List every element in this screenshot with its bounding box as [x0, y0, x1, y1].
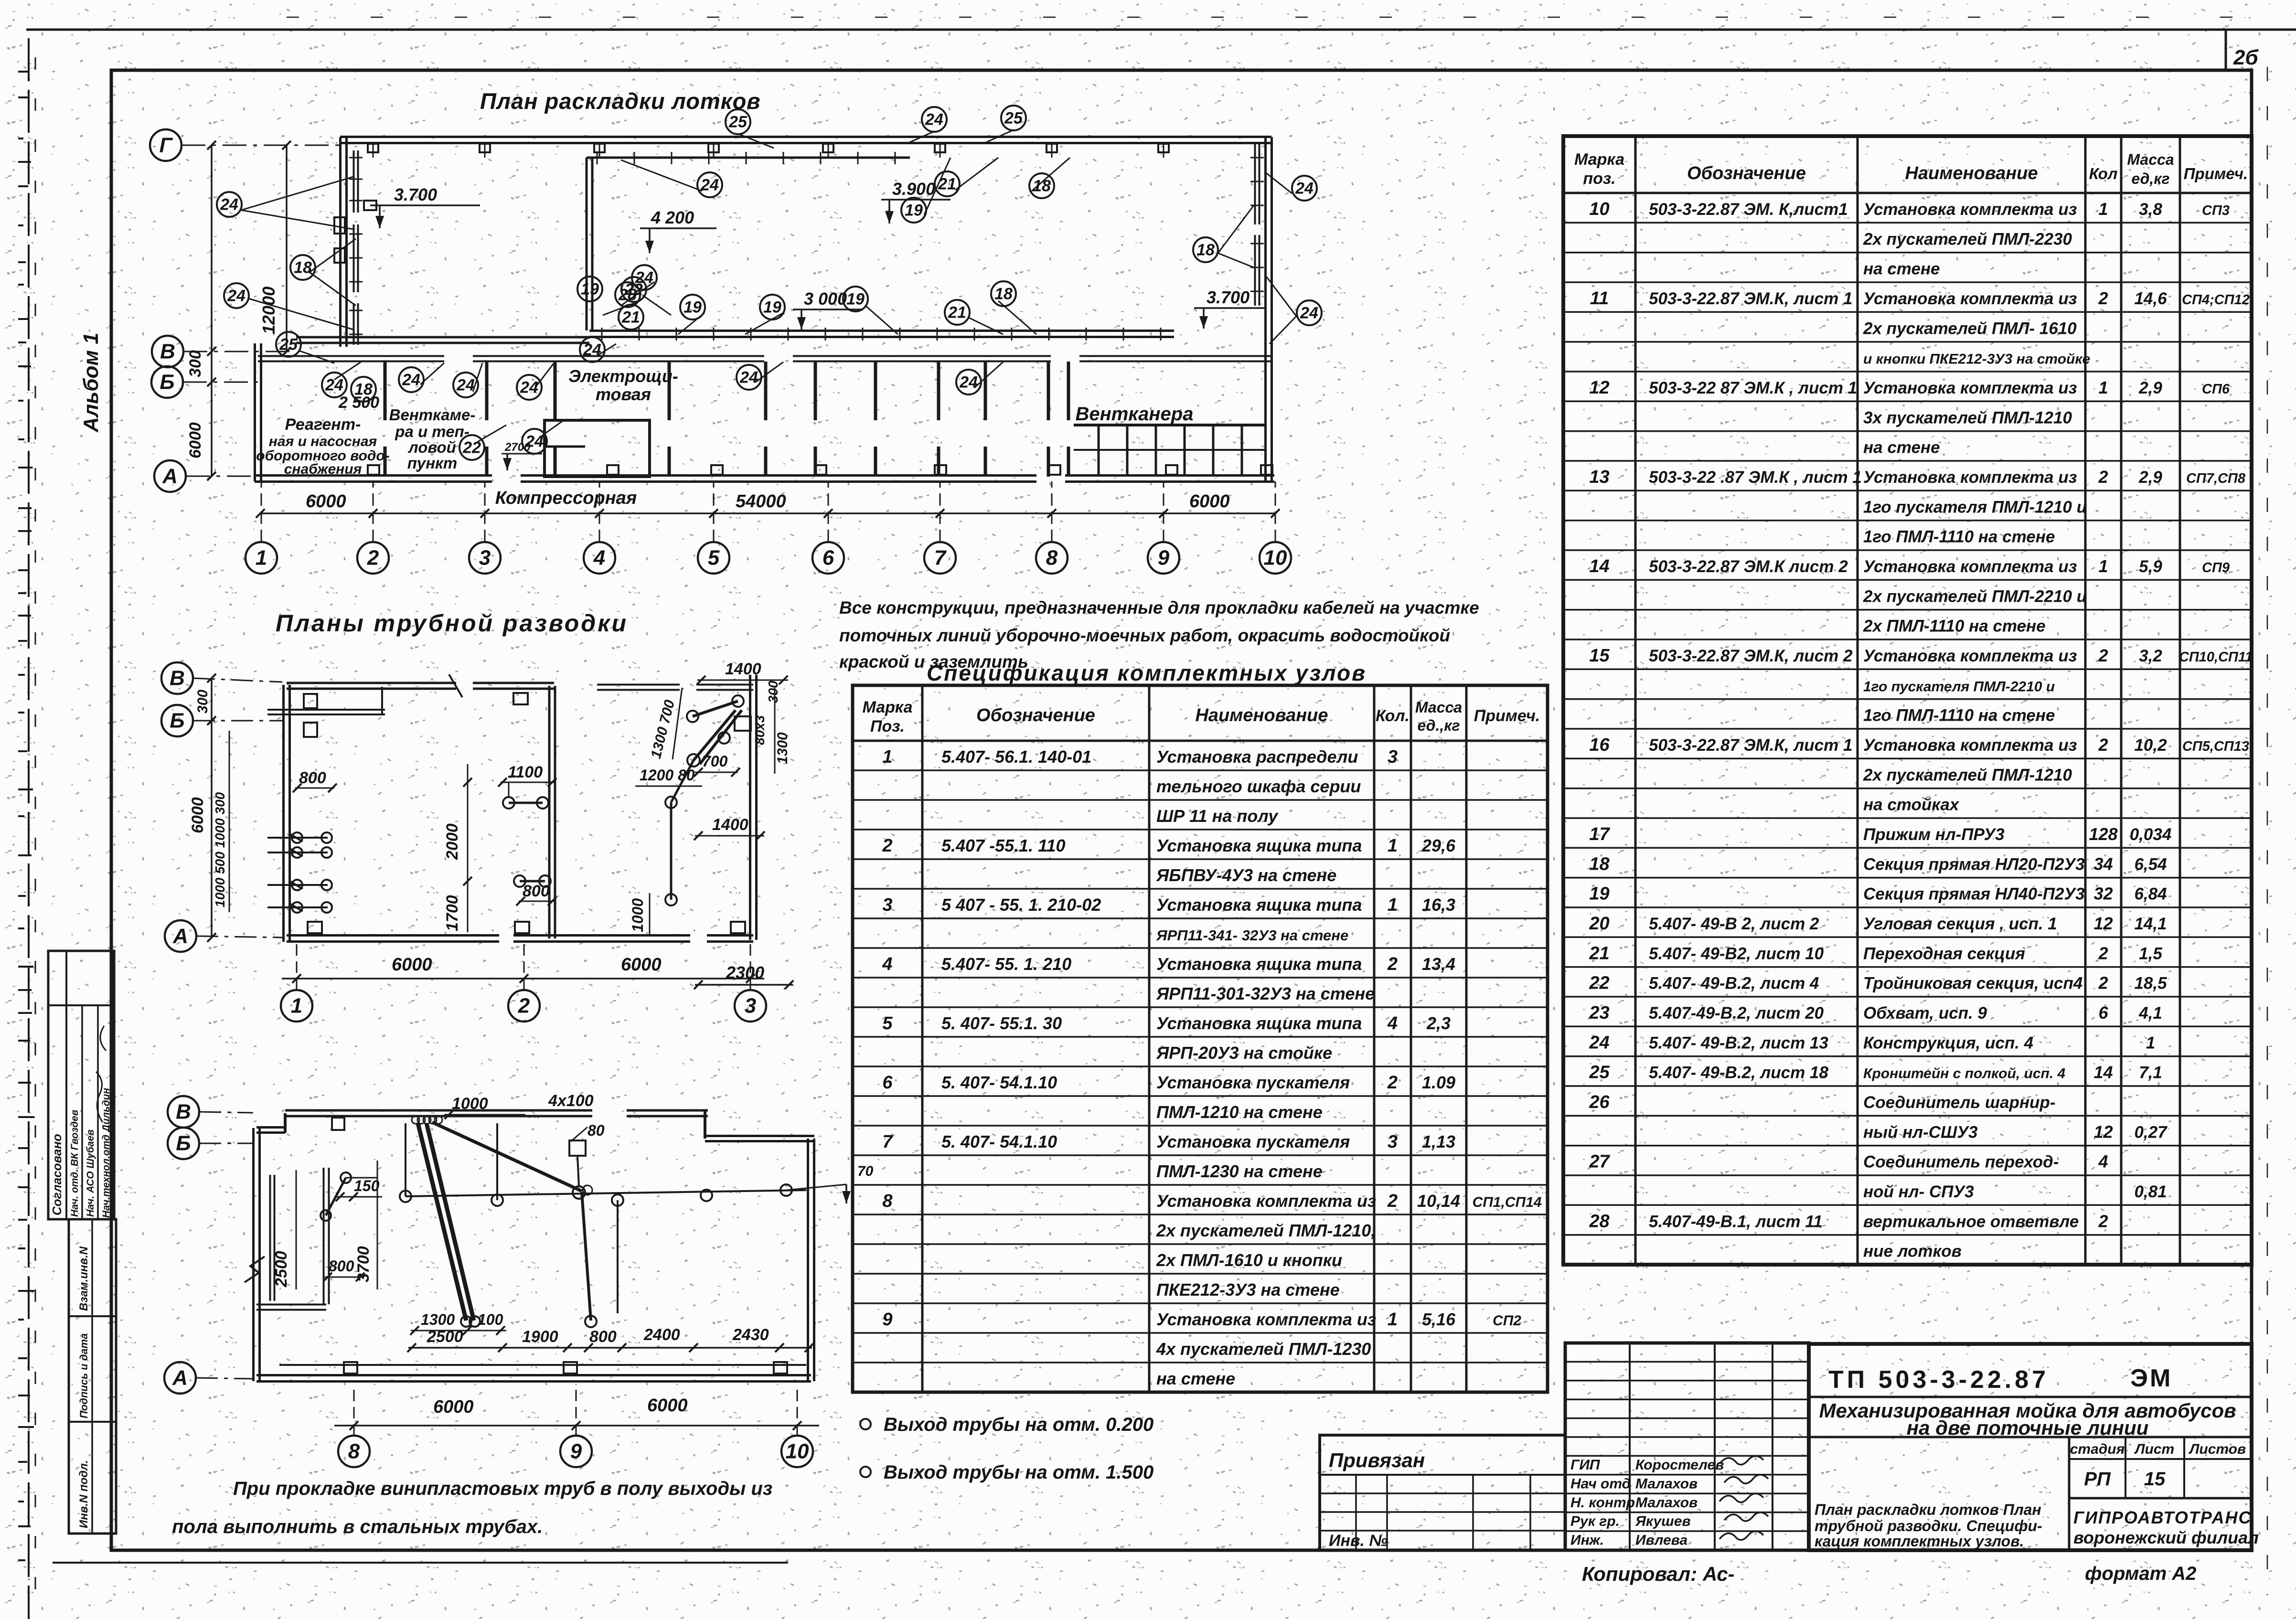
plan3 left pipe: [326, 1178, 346, 1215]
svg-text:25: 25: [728, 113, 748, 131]
svg-text:на стене: на стене: [1863, 438, 1940, 457]
svg-text:товая: товая: [596, 384, 651, 404]
position circle 24: [956, 370, 981, 394]
svg-text:34: 34: [2093, 854, 2113, 873]
svg-text:Соединитель переход-: Соединитель переход-: [1863, 1153, 2059, 1172]
svg-text:2,9: 2,9: [2138, 468, 2162, 487]
svg-text:15: 15: [2144, 1469, 2166, 1490]
svg-text:РП: РП: [2084, 1469, 2111, 1490]
svg-text:2х ПМЛ-1610 и кнопки: 2х ПМЛ-1610 и кнопки: [1156, 1250, 1342, 1270]
svg-text:Примеч.: Примеч.: [2184, 165, 2248, 182]
svg-text:10,2: 10,2: [2134, 736, 2167, 755]
svg-text:поточных линий уборочно-моечны: поточных линий уборочно-моечных работ, о…: [839, 626, 1450, 645]
svg-text:8: 8: [348, 1440, 360, 1463]
svg-text:Обозначение: Обозначение: [976, 705, 1095, 725]
position circle 25: [1001, 106, 1026, 130]
scan bottom-left edge line: [53, 1562, 788, 1564]
svg-text:ед,кг: ед,кг: [2131, 170, 2169, 187]
svg-text:Реагент-: Реагент-: [285, 415, 361, 434]
main plan: electroshchitovaya room: [545, 420, 650, 477]
svg-text:Кол.: Кол.: [1376, 707, 1410, 725]
svg-text:Планы трубной разводки: Планы трубной разводки: [276, 610, 628, 637]
main plan: corridor tray line: [589, 330, 1174, 332]
svg-text:Установка ящика типа: Установка ящика типа: [1156, 954, 1362, 974]
svg-text:21: 21: [938, 175, 956, 193]
svg-text:12: 12: [2093, 1122, 2113, 1141]
svg-text:Установка комплекта из: Установка комплекта из: [1156, 1191, 1376, 1211]
svg-text:ЯБПВУ-4У3 на стене: ЯБПВУ-4У3 на стене: [1156, 865, 1336, 885]
main plan: partitions below corridor: [384, 362, 387, 420]
axis circle V: [152, 336, 183, 367]
svg-text:ние лотков: ние лотков: [1863, 1242, 1962, 1261]
legend: pipe outlet note 2: [860, 1467, 871, 1477]
svg-text:Привязан: Привязан: [1329, 1449, 1425, 1471]
svg-text:10: 10: [1589, 199, 1609, 219]
svg-text:0,81: 0,81: [2134, 1182, 2167, 1201]
svg-text:4: 4: [593, 546, 605, 570]
svg-text:23: 23: [1589, 1003, 1609, 1023]
main plan: tray along right wall inner: [1254, 144, 1256, 224]
svg-text:5.407- 49-В.2, лист 13: 5.407- 49-В.2, лист 13: [1649, 1033, 1828, 1052]
svg-text:Выход трубы на отм. 1.500: Выход трубы на отм. 1.500: [884, 1462, 1153, 1483]
svg-text:ед.,кг: ед.,кг: [1417, 717, 1460, 734]
svg-text:5: 5: [708, 546, 720, 570]
axis circle 2: [357, 542, 389, 574]
svg-text:9: 9: [882, 1310, 892, 1330]
svg-text:ПМЛ-1230 на стене: ПМЛ-1230 на стене: [1156, 1161, 1323, 1181]
svg-text:2: 2: [1387, 1191, 1398, 1211]
svg-text:1: 1: [256, 546, 267, 570]
svg-text:СП7,СП8: СП7,СП8: [2186, 471, 2246, 486]
svg-text:снабжения: снабжения: [284, 461, 362, 477]
svg-text:1400: 1400: [712, 816, 748, 834]
svg-text:СП10,СП11: СП10,СП11: [2179, 650, 2253, 665]
position circle 24: [632, 265, 657, 290]
svg-text:СП9: СП9: [2202, 560, 2230, 575]
plan2 bottom dim line: [282, 978, 764, 980]
svg-text:ГИПРОАВТОТРАНС: ГИПРОАВТОТРАНС: [2073, 1508, 2252, 1527]
svg-text:1: 1: [1388, 895, 1398, 915]
svg-text:4,1: 4,1: [2138, 1004, 2162, 1023]
position circle 24: [399, 367, 424, 392]
svg-text:2: 2: [1387, 954, 1398, 974]
svg-text:5.407- 56.1. 140-01: 5.407- 56.1. 140-01: [941, 747, 1091, 767]
main plan: left outer wall: [339, 137, 342, 347]
svg-text:4: 4: [2098, 1152, 2108, 1172]
svg-text:2: 2: [882, 836, 892, 856]
svg-text:Обозначение: Обозначение: [1687, 163, 1806, 183]
svg-text:12: 12: [1589, 378, 1609, 398]
svg-text:21: 21: [621, 309, 640, 327]
svg-text:1го ПМЛ-1110 на стене: 1го ПМЛ-1110 на стене: [1863, 706, 2055, 725]
svg-text:ЯРП11-341- 32У3 на стене: ЯРП11-341- 32У3 на стене: [1156, 927, 1348, 944]
svg-text:1го пускателя ПМЛ-2210 и: 1го пускателя ПМЛ-2210 и: [1863, 679, 2055, 694]
position circle 18: [1029, 173, 1054, 198]
svg-text:3: 3: [1388, 747, 1398, 767]
svg-text:5,16: 5,16: [1422, 1310, 1456, 1329]
svg-text:8: 8: [882, 1191, 893, 1211]
svg-text:Малахов: Малахов: [1635, 1495, 1698, 1511]
svg-text:25: 25: [1004, 109, 1023, 128]
svg-text:24: 24: [456, 376, 475, 394]
svg-text:24: 24: [325, 376, 343, 394]
svg-text:6000: 6000: [433, 1397, 474, 1417]
plan2 axis circles: [161, 662, 193, 694]
axis circle B: [151, 366, 183, 398]
svg-text:0,27: 0,27: [2134, 1123, 2168, 1141]
svg-text:18: 18: [1033, 177, 1051, 195]
svg-text:19: 19: [1589, 884, 1609, 904]
svg-text:Установка пускателя: Установка пускателя: [1156, 1132, 1350, 1151]
svg-text:Кронштейн с полкой, исп. 4: Кронштейн с полкой, исп. 4: [1863, 1066, 2065, 1082]
svg-text:Нач.технол.отд Дильдин: Нач.технол.отд Дильдин: [101, 1088, 112, 1218]
svg-text:9: 9: [1158, 546, 1170, 570]
svg-text:ловой: ловой: [407, 438, 456, 456]
svg-text:5.407- 49-В.2, лист 18: 5.407- 49-В.2, лист 18: [1649, 1064, 1828, 1082]
svg-text:Переходная секция: Переходная секция: [1863, 944, 2025, 963]
svg-text:ПКЕ212-3У3 на стене: ПКЕ212-3У3 на стене: [1156, 1280, 1340, 1299]
svg-text:12: 12: [2093, 914, 2113, 933]
svg-text:19: 19: [683, 298, 702, 317]
position circle 18: [290, 255, 315, 280]
svg-text:18: 18: [1196, 241, 1215, 259]
svg-text:24: 24: [1295, 180, 1314, 198]
svg-text:2000: 2000: [443, 823, 461, 860]
svg-text:Компрессорная: Компрессорная: [495, 488, 637, 508]
svg-text:Инж.: Инж.: [1570, 1533, 1604, 1548]
svg-text:Подпись и дата: Подпись и дата: [78, 1333, 90, 1418]
svg-text:24: 24: [583, 341, 601, 359]
svg-text:3,2: 3,2: [2139, 647, 2162, 665]
svg-text:1000 500 1000 300: 1000 500 1000 300: [213, 792, 227, 907]
svg-text:2х пускателей ПМЛ-2230: 2х пускателей ПМЛ-2230: [1863, 230, 2072, 248]
svg-text:6: 6: [2098, 1003, 2108, 1023]
svg-text:Марка: Марка: [1574, 150, 1624, 169]
svg-text:пункт: пункт: [407, 454, 458, 472]
svg-text:1: 1: [1388, 836, 1398, 856]
svg-text:503-3-22.87 ЭМ.К, лист 1: 503-3-22.87 ЭМ.К, лист 1: [1649, 289, 1852, 308]
svg-text:5. 407- 55.1. 30: 5. 407- 55.1. 30: [941, 1013, 1062, 1033]
svg-text:18,5: 18,5: [2134, 974, 2167, 993]
svg-text:Установка пускателя: Установка пускателя: [1156, 1073, 1350, 1092]
svg-text:8: 8: [1046, 546, 1058, 570]
privyazan block: [1320, 1435, 1565, 1550]
svg-text:22: 22: [1589, 973, 1609, 993]
svg-text:План раскладки лотков: План раскладки лотков: [480, 88, 761, 114]
svg-text:2: 2: [2098, 288, 2108, 308]
svg-text:2х пускателей ПМЛ-2210 и: 2х пускателей ПМЛ-2210 и: [1863, 587, 2087, 606]
svg-text:ШР 11 на полу: ШР 11 на полу: [1156, 806, 1279, 826]
svg-text:Якушев: Якушев: [1635, 1513, 1691, 1529]
main plan: top wall inner tray line with ticks: [587, 157, 910, 159]
svg-text:7,1: 7,1: [2139, 1064, 2162, 1082]
svg-text:10: 10: [786, 1440, 809, 1463]
position circle 24: [322, 373, 347, 397]
svg-text:2х пускателей ПМЛ-1210: 2х пускателей ПМЛ-1210: [1863, 766, 2072, 784]
right specification table frame: [1563, 136, 2252, 1265]
svg-text:2х ПМЛ-1110 на стене: 2х ПМЛ-1110 на стене: [1863, 617, 2046, 636]
main plan: small tray boxes on left wall: [364, 201, 376, 210]
svg-text:Г: Г: [159, 134, 173, 157]
title block outer: [1809, 1344, 2252, 1550]
svg-text:300: 300: [186, 350, 204, 377]
svg-text:15: 15: [1589, 646, 1610, 666]
plan2 axis circles bottom: [281, 990, 312, 1022]
svg-text:ЯРП11-301-32У3 на стене: ЯРП11-301-32У3 на стене: [1156, 984, 1375, 1003]
svg-text:стадия: стадия: [2070, 1441, 2125, 1457]
svg-text:Спецификация комплектных у: Спецификация комплектных узлов: [927, 660, 1367, 685]
svg-text:Примеч.: Примеч.: [1474, 707, 1540, 725]
position circle 24: [217, 192, 242, 217]
svg-text:СП6: СП6: [2202, 382, 2230, 397]
svg-text:ЭМ: ЭМ: [2130, 1364, 2172, 1392]
svg-text:10: 10: [1264, 546, 1287, 570]
svg-text:2,9: 2,9: [2138, 379, 2162, 397]
position circle 24: [737, 365, 761, 390]
scan sheet left edge: [28, 38, 30, 1619]
svg-text:1100: 1100: [508, 763, 543, 781]
plan2 rotated dims 2000/1700: [467, 764, 469, 932]
svg-text:3: 3: [745, 994, 756, 1018]
svg-text:24: 24: [227, 287, 246, 305]
plan3 vertical pipes: [405, 1123, 406, 1196]
position circle 24: [453, 373, 478, 397]
scan sheet top edge: [26, 29, 2296, 31]
bottom dimension line of main plan: [260, 512, 1275, 514]
svg-text:800: 800: [329, 1257, 354, 1275]
main plan: ventkamera inner walls: [1074, 424, 1266, 426]
svg-text:поз.: поз.: [1583, 170, 1615, 188]
svg-text:2430: 2430: [732, 1326, 769, 1344]
title block: stage/sheet grid: [2068, 1437, 2071, 1550]
svg-text:Малахов: Малахов: [1635, 1476, 1698, 1491]
svg-text:Взам.инв.N: Взам.инв.N: [77, 1246, 90, 1311]
svg-text:3: 3: [479, 546, 491, 570]
position circle 19: [760, 295, 785, 320]
svg-text:22: 22: [462, 439, 481, 457]
svg-text:2: 2: [2098, 943, 2108, 963]
svg-text:Нач. отд. ВК Гвоздев: Нач. отд. ВК Гвоздев: [69, 1109, 80, 1217]
svg-text:16,3: 16,3: [1422, 895, 1455, 915]
signature table: [1565, 1343, 1809, 1550]
svg-text:А: А: [172, 1366, 188, 1390]
svg-text:А: А: [162, 465, 178, 488]
svg-text:Масса: Масса: [2127, 151, 2174, 168]
position circle 19: [901, 198, 926, 223]
svg-text:2500: 2500: [427, 1328, 463, 1346]
svg-text:Поз.: Поз.: [870, 717, 905, 735]
position circle 21: [619, 305, 643, 330]
svg-text:пола выполнить в стальных: пола выполнить в стальных трубах.: [172, 1516, 543, 1537]
plan2 left pipe group: [267, 837, 328, 839]
svg-text:1000: 1000: [452, 1095, 488, 1113]
svg-text:18: 18: [294, 259, 312, 277]
svg-text:Соединитель шарнир-: Соединитель шарнир-: [1863, 1093, 2055, 1112]
main plan: west extension tray: [296, 336, 589, 339]
plan3 box on pipe: [569, 1140, 586, 1156]
main plan: column ticks along top wall: [368, 144, 378, 152]
svg-text:Нач отд: Нач отд: [1570, 1476, 1631, 1491]
svg-text:Секция прямая НЛ20-П2У3: Секция прямая НЛ20-П2У3: [1863, 855, 2085, 873]
svg-text:6000: 6000: [189, 797, 207, 833]
main plan: bottom outer wall: [255, 474, 492, 477]
svg-text:24: 24: [959, 373, 978, 392]
svg-text:Б: Б: [170, 709, 184, 733]
svg-text:1: 1: [2098, 199, 2108, 219]
svg-text:14: 14: [2093, 1063, 2113, 1082]
position circle 24: [1297, 300, 1322, 325]
position circle 19: [577, 277, 602, 301]
main plan: inner hall west wall: [586, 158, 588, 330]
svg-text:на стене: на стене: [1863, 260, 1940, 278]
svg-text:Установка комплекта из: Установка комплекта из: [1863, 379, 2077, 397]
svg-text:Инв. №: Инв. №: [1329, 1532, 1388, 1550]
axis circle 9: [1148, 542, 1179, 574]
svg-text:СП2: СП2: [1493, 1313, 1521, 1329]
axis circle G: [150, 129, 182, 161]
svg-text:Н. контр: Н. контр: [1570, 1495, 1635, 1511]
position circle 28: [615, 282, 640, 307]
svg-text:Установка ящика типа: Установка ящика типа: [1156, 895, 1362, 915]
svg-text:2400: 2400: [643, 1326, 680, 1344]
plan2 wall squares: [304, 694, 317, 708]
svg-text:5.407- 49-В.2, лист 4: 5.407- 49-В.2, лист 4: [1649, 974, 1819, 993]
svg-text:3 000: 3 000: [804, 289, 847, 309]
main plan: room top wall: [258, 355, 444, 357]
svg-text:Копировал: Ас-: Копировал: Ас-: [1582, 1563, 1735, 1585]
svg-text:2х пускателей ПМЛ- 1610: 2х пускателей ПМЛ- 1610: [1863, 319, 2077, 338]
svg-text:503-3-22 87 ЭМ.К , лист 1: 503-3-22 87 ЭМ.К , лист 1: [1649, 379, 1857, 397]
svg-text:9: 9: [570, 1440, 582, 1463]
svg-text:1400: 1400: [725, 660, 761, 678]
svg-text:19: 19: [905, 202, 923, 220]
svg-text:Б: Б: [160, 371, 174, 394]
svg-text:Установка ящика типа: Установка ящика типа: [1156, 1013, 1362, 1033]
plan3 knot mid: [573, 1186, 585, 1199]
position circle 25: [276, 332, 301, 357]
svg-text:150: 150: [354, 1177, 380, 1194]
main plan: right outer wall: [1264, 137, 1267, 481]
svg-text:Угловая секция , исп. 1: Угловая секция , исп. 1: [1863, 915, 2057, 933]
svg-text:54000: 54000: [736, 491, 786, 511]
svg-text:Б: Б: [176, 1132, 191, 1155]
svg-text:Установка комплекта из: Установка комплекта из: [1863, 200, 2077, 219]
svg-text:24: 24: [220, 196, 238, 214]
svg-text:Инв.N подл.: Инв.N подл.: [77, 1460, 90, 1528]
position circle 19: [680, 295, 705, 320]
position circle 19: [843, 287, 868, 311]
svg-text:3: 3: [1388, 1132, 1398, 1152]
svg-text:1го пускателя ПМЛ-1210 и: 1го пускателя ПМЛ-1210 и: [1863, 498, 2087, 516]
svg-text:6: 6: [882, 1073, 893, 1093]
margin approval block: [48, 951, 114, 1219]
svg-text:1: 1: [2146, 1033, 2155, 1052]
svg-text:1300: 1300: [421, 1311, 455, 1328]
svg-text:воронежский филиал: воронежский филиал: [2073, 1528, 2259, 1547]
axis circle 8: [1036, 542, 1068, 574]
position circle 24: [697, 172, 722, 197]
svg-text:СП1,СП14: СП1,СП14: [1473, 1194, 1542, 1210]
svg-text:ной нл- СПУ3: ной нл- СПУ3: [1863, 1182, 1974, 1201]
svg-text:14,6: 14,6: [2134, 289, 2167, 308]
svg-text:5. 407- 54.1.10: 5. 407- 54.1.10: [941, 1073, 1057, 1092]
svg-text:300: 300: [195, 690, 211, 714]
svg-text:на стойках: на стойках: [1863, 796, 1960, 814]
position circle 21: [945, 300, 970, 325]
svg-text:ный нл-СШУ3: ный нл-СШУ3: [1863, 1123, 1978, 1141]
svg-text:Установка комплекта из: Установка комплекта из: [1863, 647, 2077, 665]
main plan: lower-left block west wall: [254, 343, 256, 481]
main plan: bottom wall column marks: [368, 465, 379, 475]
svg-text:на две поточные линии: на две поточные линии: [1907, 1417, 2149, 1439]
svg-text:3: 3: [882, 895, 892, 915]
svg-text:22: 22: [624, 281, 643, 299]
position circle 24: [522, 429, 547, 454]
svg-text:СП5,СП13: СП5,СП13: [2182, 739, 2249, 754]
svg-text:ГИП: ГИП: [1570, 1457, 1601, 1473]
plan2 walls: [282, 685, 285, 942]
svg-text:трубной разводки. Специфи-: трубной разводки. Специфи-: [1815, 1517, 2042, 1534]
plan3 rotated dims 2500/3700: [296, 1170, 297, 1289]
svg-text:503-3-22.87 ЭМ.К лист 2: 503-3-22.87 ЭМ.К лист 2: [1649, 557, 1848, 576]
svg-text:2500: 2500: [272, 1251, 290, 1288]
svg-text:1000: 1000: [629, 898, 646, 932]
plan3 axis circles bottom: [338, 1436, 370, 1467]
svg-text:и кнопки ПКЕ212-3У3 на стойке: и кнопки ПКЕ212-3У3 на стойке: [1863, 351, 2090, 367]
svg-text:12000: 12000: [259, 287, 278, 334]
axis dash lines horizontal: [182, 145, 340, 146]
svg-text:1,13: 1,13: [1422, 1132, 1455, 1151]
svg-text:Обхват, исп. 9: Обхват, исп. 9: [1863, 1004, 1987, 1023]
svg-text:ЯРП-20У3 на стойке: ЯРП-20У3 на стойке: [1156, 1043, 1332, 1063]
svg-text:СП3: СП3: [2202, 203, 2230, 218]
svg-text:Согласовано: Согласовано: [50, 1134, 64, 1215]
svg-text:25: 25: [1589, 1063, 1610, 1083]
left vertical dim line 300/6000: [211, 145, 213, 476]
svg-text:на стене: на стене: [1156, 1369, 1235, 1388]
svg-text:17: 17: [1589, 824, 1610, 844]
svg-text:1: 1: [2098, 378, 2108, 397]
plan2 tray across left: [267, 709, 385, 711]
svg-text:Кол: Кол: [2089, 165, 2118, 182]
svg-text:6,54: 6,54: [2134, 855, 2167, 873]
svg-text:128: 128: [2089, 824, 2117, 844]
svg-text:3.700: 3.700: [1207, 288, 1249, 307]
svg-text:2,3: 2,3: [1426, 1013, 1451, 1033]
axis circle 10: [1260, 542, 1291, 574]
svg-text:Ивлева: Ивлева: [1635, 1533, 1687, 1548]
svg-text:1300: 1300: [775, 732, 790, 764]
svg-text:13: 13: [1589, 467, 1609, 487]
svg-text:24: 24: [525, 433, 544, 451]
svg-text:Нач. АСО Шубаев: Нач. АСО Шубаев: [85, 1129, 96, 1217]
svg-text:6: 6: [822, 546, 834, 570]
svg-text:Электрощи-: Электрощи-: [568, 366, 678, 386]
svg-text:26: 26: [1589, 1092, 1610, 1112]
scan sheet right edge: [2267, 67, 2268, 1595]
svg-text:ТП 503-3-22.87: ТП 503-3-22.87: [1828, 1366, 2049, 1394]
axis circle 1: [246, 542, 277, 574]
svg-text:24: 24: [520, 379, 538, 397]
svg-text:20: 20: [1589, 914, 1609, 934]
position circle 22: [459, 435, 484, 460]
position circle 18: [991, 281, 1016, 306]
svg-text:Альбом 1: Альбом 1: [79, 332, 103, 433]
svg-text:2б: 2б: [2233, 46, 2259, 69]
central table row lines: [853, 769, 1548, 771]
axis circle 5: [698, 542, 729, 574]
svg-text:формат А2: формат А2: [2085, 1563, 2196, 1584]
